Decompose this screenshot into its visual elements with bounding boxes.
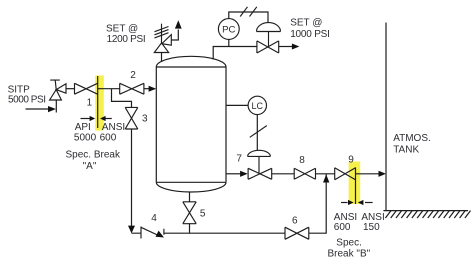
wire valve 7 to 8 <box>272 173 295 175</box>
wire valve 3 drop with down arrow <box>131 129 133 226</box>
valve 3 (gate, vertical) <box>125 107 138 129</box>
dimension arrows spec break B <box>341 202 348 204</box>
svg-text:600: 600 <box>334 222 351 233</box>
svg-text:9: 9 <box>348 155 354 166</box>
signal line PC to actuator <box>229 12 268 23</box>
svg-text:1000 PSI: 1000 PSI <box>290 29 330 40</box>
controller PC <box>218 19 239 40</box>
svg-text:Break "B": Break "B" <box>328 249 371 260</box>
highlight band spec break B <box>349 162 361 205</box>
svg-text:SET @: SET @ <box>290 18 322 29</box>
relief valve PSV <box>154 24 171 53</box>
wire bottom header <box>132 174 327 233</box>
svg-text:3: 3 <box>142 113 148 124</box>
PSV vent arrow up <box>171 30 178 41</box>
svg-text:ATMOS.: ATMOS. <box>393 133 431 144</box>
wire vessel to LC <box>226 104 248 106</box>
ground line <box>383 210 468 212</box>
valve 5 (gate, vertical) <box>183 202 196 224</box>
wire branch to valve 3 <box>112 89 132 108</box>
svg-text:Spec.: Spec. <box>336 237 362 248</box>
svg-text:LC: LC <box>252 101 264 111</box>
svg-text:7: 7 <box>236 153 242 164</box>
riser up arrow <box>323 175 329 183</box>
signal tick <box>250 126 267 138</box>
PSV stem to vessel <box>161 53 163 63</box>
svg-text:2: 2 <box>130 70 136 81</box>
angle valve (inlet isolation) <box>50 80 66 100</box>
spec break line A <box>97 76 99 128</box>
wire vessel bottom outlet <box>189 192 191 233</box>
svg-text:PC: PC <box>222 25 235 36</box>
wire valve 8 to 9 <box>316 173 335 175</box>
wire vessel to control valve <box>213 47 257 60</box>
controller LC <box>248 96 266 114</box>
vessel V1 <box>156 56 226 192</box>
signal ticks <box>240 7 257 17</box>
feed arrow <box>26 108 50 110</box>
signal LC to valve 7 actuator <box>256 115 258 151</box>
valve 7 (control, diaphragm) <box>248 150 272 179</box>
wire spec A to valve 2 <box>98 88 120 90</box>
wire vessel to valve 7 with arrow <box>226 173 241 175</box>
wire valve 9 to wall with arrow <box>356 173 380 175</box>
valve 8 (gate) <box>294 168 315 179</box>
wire valve 2 to vessel with arrow <box>144 88 150 90</box>
svg-text:150: 150 <box>363 222 380 233</box>
highlight band spec break A <box>95 76 104 131</box>
svg-text:5000: 5000 <box>74 132 97 143</box>
svg-text:1: 1 <box>87 97 93 108</box>
atmos tank wall <box>385 23 387 211</box>
ground hatching <box>385 211 470 218</box>
dimension arrows spec break A <box>81 118 91 120</box>
svg-text:4: 4 <box>151 213 157 224</box>
check valve 4 <box>141 227 164 239</box>
valve 6 (gate) <box>285 227 309 239</box>
svg-text:TANK: TANK <box>393 144 419 155</box>
svg-text:8: 8 <box>299 155 305 166</box>
svg-text:"A": "A" <box>83 161 97 172</box>
svg-text:5000 PSI: 5000 PSI <box>8 95 46 106</box>
wire feed riser <box>55 100 57 113</box>
svg-text:Spec. Break: Spec. Break <box>66 149 121 160</box>
svg-text:600: 600 <box>100 132 117 143</box>
wire PC tap <box>228 39 230 46</box>
svg-text:1200 PSI: 1200 PSI <box>107 34 146 45</box>
wire angle valve to valve 1 <box>66 88 75 90</box>
valve 1 (gate) <box>75 83 98 94</box>
svg-text:5: 5 <box>200 209 206 220</box>
valve 2 (gate) <box>120 83 144 94</box>
spec break line B <box>355 167 357 204</box>
valve 9 (gate) <box>335 168 356 180</box>
wire control valve outlet arrow <box>279 46 293 48</box>
svg-text:SET @: SET @ <box>106 23 138 34</box>
svg-text:6: 6 <box>292 216 298 227</box>
control valve PV (actuator dome) <box>257 23 281 53</box>
